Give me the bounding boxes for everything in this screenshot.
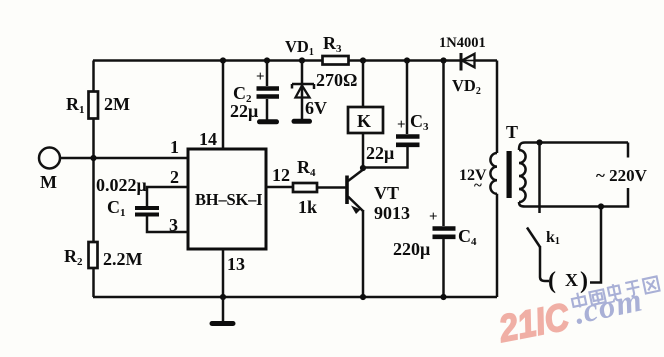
svg-text:X: X <box>565 270 578 290</box>
svg-text:22μ: 22μ <box>230 101 258 121</box>
svg-text:BH–SK–I: BH–SK–I <box>195 190 262 209</box>
wire left rail upper <box>92 61 95 93</box>
svg-text:+: + <box>397 117 406 133</box>
transistor Q1 VT 9013 <box>347 170 410 223</box>
wire secondary top <box>525 141 628 144</box>
svg-text:2M: 2M <box>104 94 130 114</box>
switch k1 <box>527 143 560 282</box>
pin 13 label <box>227 254 245 274</box>
resistor R1 <box>66 92 130 119</box>
svg-text:12: 12 <box>272 165 290 185</box>
wire pin 3 <box>147 217 188 233</box>
svg-text:~ 220V: ~ 220V <box>596 166 648 185</box>
svg-text:+: + <box>429 209 438 225</box>
svg-text:~: ~ <box>474 178 482 194</box>
resistor R3 270ohm <box>316 33 357 90</box>
transformer T <box>459 61 526 298</box>
pin 1 label <box>170 137 179 157</box>
wire emitter to bottom rail <box>362 210 365 297</box>
primary winding <box>490 153 497 194</box>
wire X to bottom wire <box>590 207 601 283</box>
pin 12 label <box>272 165 290 185</box>
svg-text:0.022μ: 0.022μ <box>96 175 147 195</box>
IC U1 BH-SK-I <box>188 149 266 249</box>
node C4-bottom rail <box>440 294 446 300</box>
diode VD2 1N4001 <box>439 35 486 97</box>
primary wire bottom <box>496 194 499 297</box>
node emitter-bottom rail <box>360 294 366 300</box>
resistor R2 <box>64 242 143 269</box>
svg-text:VT: VT <box>374 183 399 203</box>
svg-text:+: + <box>256 69 265 85</box>
wire pin 2 <box>147 187 188 206</box>
pin 3 label <box>169 215 178 235</box>
capacitor C1 <box>96 175 159 219</box>
wire left rail lower <box>92 268 95 297</box>
node collector junction <box>360 165 366 171</box>
svg-text:14: 14 <box>199 129 217 149</box>
svg-text:1k: 1k <box>298 197 317 217</box>
svg-text:K: K <box>357 111 371 131</box>
pin 2 label <box>170 167 179 187</box>
capacitor C4 <box>393 61 477 298</box>
svg-text:2: 2 <box>170 167 179 187</box>
core <box>507 151 512 198</box>
svg-text:13: 13 <box>227 254 245 274</box>
wire top rail <box>93 59 497 62</box>
relay coil K <box>348 57 383 168</box>
svg-text:270Ω: 270Ω <box>316 70 357 90</box>
wire bottom rail <box>93 296 497 299</box>
svg-text:2.2M: 2.2M <box>103 249 143 269</box>
svg-text:(: ( <box>548 268 556 294</box>
microphone M <box>39 148 60 193</box>
node pin14-rail <box>220 57 226 63</box>
zener diode VD1 6V <box>285 37 327 120</box>
lamp X <box>548 268 588 294</box>
svg-text:6V: 6V <box>305 98 327 118</box>
wire 220V right side upper <box>627 143 630 158</box>
ground under C2 <box>260 119 277 124</box>
wire left rail mid <box>92 119 95 243</box>
wire 220V right side lower <box>601 188 628 207</box>
ground under VD1 <box>294 119 310 124</box>
wire pin 13 <box>222 249 225 297</box>
svg-text:220μ: 220μ <box>393 239 430 259</box>
wire pin 14 <box>222 61 225 150</box>
node k1 top <box>536 139 542 145</box>
svg-text:M: M <box>40 172 57 192</box>
ground <box>212 297 233 324</box>
node pin13-bottom rail <box>220 294 226 300</box>
capacitor C2 <box>230 57 279 121</box>
wire M to IC pin 1 <box>60 157 188 160</box>
primary wire top <box>496 61 499 154</box>
secondary winding <box>519 150 526 202</box>
watermark .com <box>571 282 645 331</box>
node X-bottom wire <box>598 203 604 209</box>
pin 14 label <box>199 129 217 149</box>
svg-text:22μ: 22μ <box>366 143 394 163</box>
svg-text:T: T <box>506 122 518 142</box>
watermark 21IC <box>495 296 573 351</box>
label 220V <box>596 166 648 185</box>
node VD2 junction <box>440 57 446 63</box>
wire secondary bottom <box>525 205 601 208</box>
svg-text:9013: 9013 <box>374 203 410 223</box>
svg-text:12V: 12V <box>459 167 487 184</box>
watermark chinese <box>571 275 660 310</box>
svg-text:): ) <box>580 268 588 294</box>
resistor R4 1k <box>266 157 346 217</box>
capacitor C3 <box>363 57 429 167</box>
svg-text:1: 1 <box>170 137 179 157</box>
node junction M-rail <box>90 155 96 161</box>
svg-text:1N4001: 1N4001 <box>439 35 486 51</box>
